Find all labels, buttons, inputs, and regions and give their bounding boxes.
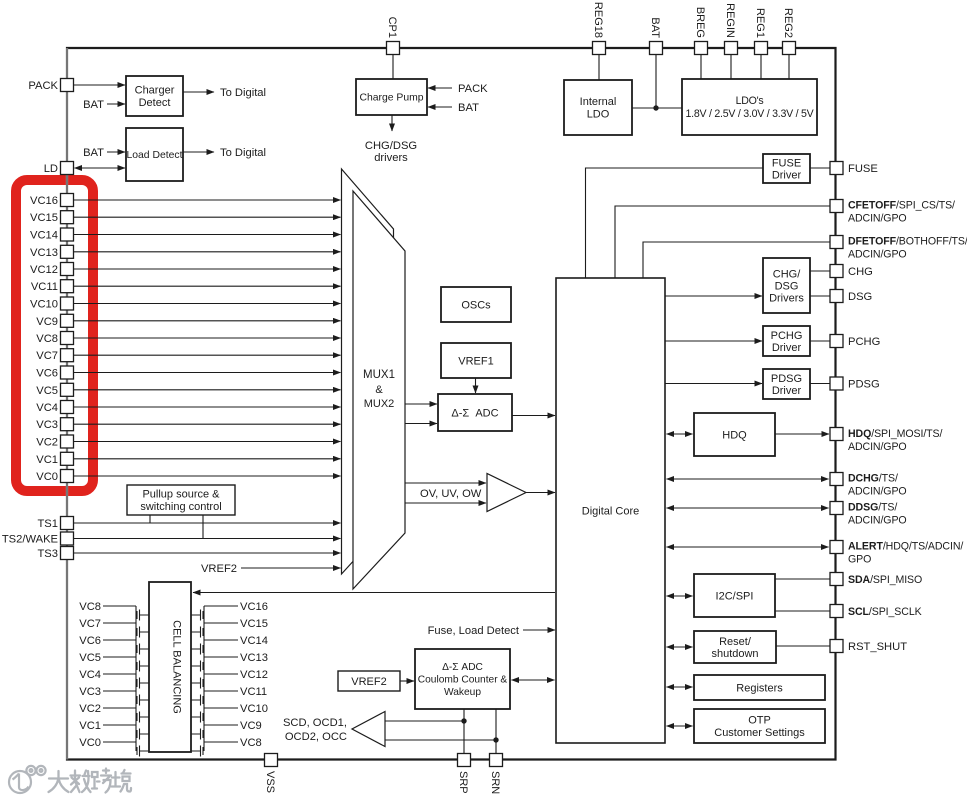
block CHG/DSG Drivers [763, 258, 810, 313]
balancing FET VC3 left [103, 691, 149, 708]
label SDA [848, 574, 922, 586]
label HDQ [848, 428, 943, 453]
wire VC1 to MUX [74, 458, 341, 460]
balancing FET VC2 left [103, 708, 149, 725]
balancing FET VC1 left [103, 725, 149, 742]
block Coulomb Counter ADC [415, 649, 510, 709]
pin BAT (top) [650, 42, 663, 55]
svg-text:MUX2: MUX2 [364, 398, 395, 410]
svg-text:BAT: BAT [83, 147, 104, 159]
svg-text:DDSG/TS/: DDSG/TS/ [848, 502, 897, 514]
wire BAT into Charge Pump [428, 106, 452, 108]
wire TS2/WAKE to MUX [74, 538, 341, 540]
wire CFETOFF to Digital Core [615, 206, 830, 278]
svg-text:VC0: VC0 [79, 737, 101, 749]
wire VC15 to MUX [74, 216, 341, 218]
balancing FET VC0 left [103, 742, 149, 757]
svg-text:VC8: VC8 [79, 601, 101, 613]
pin REG1 [755, 42, 768, 55]
block Internal LDO [564, 80, 632, 135]
svg-text:ADCIN/GPO: ADCIN/GPO [848, 515, 907, 527]
balancing FET VC7 left [103, 623, 149, 640]
wire MUX to comparator in1 [405, 482, 486, 484]
pin PDSG [830, 377, 843, 390]
pin VC12 [61, 263, 74, 276]
block Pullup source and switching control [127, 485, 235, 515]
svg-text:VC9: VC9 [36, 316, 58, 328]
svg-text:VC14: VC14 [240, 635, 268, 647]
svg-text:VC6: VC6 [36, 368, 58, 380]
label MUX1 & MUX2 [363, 369, 395, 410]
svg-text:VC13: VC13 [240, 652, 268, 664]
svg-text:RST_SHUT: RST_SHUT [848, 641, 907, 653]
svg-text:VC2: VC2 [79, 703, 101, 715]
wire MUX to ADC in2 [405, 423, 437, 425]
svg-text:BREG: BREG [694, 7, 706, 38]
wire FUSE Driver to Digital Core [586, 168, 764, 278]
svg-text:VC10: VC10 [30, 299, 58, 311]
balancing FET VC16 right [191, 606, 238, 623]
pin PCHG [830, 335, 843, 348]
svg-text:VC16: VC16 [240, 601, 268, 613]
pin DDSG [830, 502, 843, 515]
svg-text:ADCIN/GPO: ADCIN/GPO [848, 441, 907, 453]
svg-text:PDSG: PDSG [848, 379, 880, 391]
wire VC0 to MUX [74, 475, 341, 477]
wire FUSE Driver to FUSE pin [810, 167, 830, 169]
svg-text:VC0: VC0 [36, 471, 58, 483]
svg-text:OCD2, OCC: OCD2, OCC [285, 731, 347, 743]
svg-text:Pullup source &: Pullup source & [142, 489, 220, 501]
svg-text:OSCs: OSCs [461, 299, 491, 311]
balancing FET VC13 right [191, 657, 238, 674]
svg-text:&: & [375, 384, 383, 396]
svg-text:Customer Settings: Customer Settings [714, 727, 805, 739]
block Delta-Sigma ADC [438, 394, 512, 431]
svg-text:OV, UV, OW: OV, UV, OW [420, 488, 482, 500]
wire Digital Core to I2C/SPI [667, 595, 693, 597]
block Digital Core [556, 278, 665, 743]
svg-text:SRP: SRP [457, 771, 469, 794]
wire ADC to Digital Core [512, 415, 555, 417]
pin VC8 [61, 332, 74, 345]
svg-text:Δ-Σ ADC: Δ-Σ ADC [442, 662, 483, 673]
svg-text:CHG/DSG: CHG/DSG [365, 140, 417, 152]
pin VC9 [61, 314, 74, 327]
svg-text:CFETOFF/SPI_CS/TS/: CFETOFF/SPI_CS/TS/ [848, 200, 955, 212]
svg-text:Load Detect: Load Detect [126, 150, 182, 161]
svg-text:DFETOFF/BOTHOFF/TS/: DFETOFF/BOTHOFF/TS/ [848, 236, 967, 248]
svg-text:TS3: TS3 [37, 548, 58, 560]
svg-text:VC15: VC15 [240, 618, 268, 630]
svg-text:VC12: VC12 [30, 264, 58, 276]
block FUSE Driver [763, 154, 810, 183]
svg-text:PCHG: PCHG [848, 336, 880, 348]
svg-text:REG18: REG18 [592, 2, 604, 38]
svg-text:VC2: VC2 [36, 437, 58, 449]
block OTP Customer Settings [694, 709, 825, 743]
wire Internal LDO to LDOs [632, 107, 682, 109]
pin VC2 [61, 435, 74, 448]
wire VC9 to MUX [74, 320, 341, 322]
pin VC11 [61, 280, 74, 293]
wire Reset/shutdown to RST_SHUT pin [776, 645, 830, 647]
wire SRP to comparator [385, 720, 464, 722]
block Load Detect [126, 128, 183, 181]
wire Digital Core to Reset/shutdown [667, 646, 693, 648]
svg-text:VC8: VC8 [240, 737, 262, 749]
svg-text:1.8V / 2.5V / 3.0V / 3.3V / 5V: 1.8V / 2.5V / 3.0V / 3.3V / 5V [686, 108, 815, 120]
pin SRP [458, 754, 471, 767]
svg-text:VC11: VC11 [240, 686, 267, 698]
pin PACK [61, 79, 74, 92]
wire Load Detect to To Digital [183, 151, 214, 153]
wire Digital Core to DDSG pin [667, 507, 829, 509]
wire MUX to comparator in2 [405, 502, 486, 504]
svg-text:HDQ: HDQ [722, 429, 747, 441]
svg-text:Charge Pump: Charge Pump [359, 93, 423, 104]
wire TS3 to MUX [74, 552, 341, 554]
svg-text:ADCIN/GPO: ADCIN/GPO [848, 249, 907, 261]
junction dot SRP [461, 718, 466, 723]
svg-text:Fuse, Load Detect: Fuse, Load Detect [428, 625, 520, 637]
svg-text:PACK: PACK [28, 80, 58, 92]
balancing FET VC9 right [191, 725, 238, 742]
wire DFETOFF to Digital Core [643, 242, 830, 278]
pin VC5 [61, 383, 74, 396]
pin VC3 [61, 418, 74, 431]
wire PACK to Charger Detect [74, 84, 126, 86]
svg-text:LDO: LDO [587, 109, 610, 121]
block Charger Detect [126, 76, 183, 116]
wire VC11 to MUX [74, 285, 341, 287]
wire VC3 to MUX [74, 423, 341, 425]
pin CHG [830, 265, 843, 278]
svg-text:CP1: CP1 [386, 17, 398, 38]
svg-text:VC12: VC12 [240, 669, 268, 681]
wire comparator to Digital Core [526, 492, 555, 494]
wire Digital Core to CHG/DSG Drivers [665, 295, 762, 297]
block I2C/SPI [694, 574, 775, 617]
pin SRN [490, 754, 503, 767]
pin REGIN [725, 42, 738, 55]
svg-text:VC3: VC3 [36, 419, 58, 431]
wire VC12 to MUX [74, 268, 341, 270]
balancing FET VC11 right [191, 691, 238, 708]
svg-text:VSS: VSS [264, 771, 276, 793]
wire VREF1 to ADC [475, 378, 477, 393]
pin REG18 [593, 42, 606, 55]
watermark logo 100 [9, 766, 46, 793]
svg-text:CELL BALANCING: CELL BALANCING [171, 620, 183, 714]
svg-text:VC15: VC15 [30, 212, 58, 224]
pin LD [61, 162, 74, 175]
svg-text:VC3: VC3 [79, 686, 101, 698]
pin CFETOFF [830, 200, 843, 213]
pin TS2/WAKE [61, 532, 74, 545]
svg-text:SDA/SPI_MISO: SDA/SPI_MISO [848, 574, 922, 586]
wire BAT to Load Detect [107, 151, 125, 153]
svg-text:Digital Core: Digital Core [582, 505, 639, 517]
block PCHG Driver [763, 326, 810, 356]
balancing FET VC4 left [103, 674, 149, 691]
svg-text:VC5: VC5 [36, 385, 58, 397]
pin VC13 [61, 245, 74, 258]
svg-text:CHG/: CHG/ [773, 268, 801, 280]
wire LD to Load Detect [75, 167, 126, 169]
svg-text:Driver: Driver [772, 169, 802, 181]
wire Digital Core to OTP [667, 725, 693, 727]
wire pullup stub to TS2 [202, 515, 204, 539]
wire Fuse Load Detect to Digital Core [523, 629, 555, 631]
svg-text:VC6: VC6 [79, 635, 101, 647]
svg-text:FUSE: FUSE [772, 157, 801, 169]
wire BREG to LDOs [700, 55, 702, 80]
label SCL [848, 606, 922, 618]
pin VC14 [61, 228, 74, 241]
svg-text:VREF2: VREF2 [201, 563, 237, 575]
chip outer border [67, 48, 836, 760]
wire Coulomb Counter to Digital Core [512, 679, 555, 681]
wire I2C/SPI to SCL pin [775, 610, 830, 612]
svg-text:VC9: VC9 [240, 720, 262, 732]
svg-text:Driver: Driver [772, 385, 802, 397]
block Charge Pump [356, 79, 427, 115]
svg-text:To Digital: To Digital [220, 87, 266, 99]
pin DCHG [830, 473, 843, 486]
svg-text:LDO's: LDO's [736, 95, 764, 107]
pin VC4 [61, 401, 74, 414]
svg-text:CHG: CHG [848, 266, 873, 278]
label DDSG [848, 502, 907, 527]
wire BAT to LDO rail [655, 55, 657, 109]
pin VC6 [61, 366, 74, 379]
svg-text:OTP: OTP [748, 715, 771, 727]
svg-text:VC7: VC7 [36, 350, 58, 362]
svg-text:drivers: drivers [374, 152, 408, 164]
wire VC10 to MUX [74, 303, 341, 305]
comparator SCD/OCD/OCC [352, 712, 385, 747]
svg-text:VC1: VC1 [79, 720, 101, 732]
pin SDA [830, 573, 843, 586]
block CELL BALANCING [149, 582, 191, 752]
block LDOs [682, 79, 817, 135]
wire HDQ to HDQ pin [775, 433, 829, 435]
comparator OV/UV/OW [487, 474, 526, 512]
wire Charger Detect to To Digital [183, 91, 214, 93]
svg-text:ALERT/HDQ/TS/ADCIN/: ALERT/HDQ/TS/ADCIN/ [848, 541, 963, 553]
balancing FET VC15 right [191, 623, 238, 640]
svg-text:VREF2: VREF2 [351, 676, 386, 688]
svg-text:SCL/SPI_SCLK: SCL/SPI_SCLK [848, 606, 922, 618]
junction dot SRN [493, 737, 498, 742]
pin REG2 [783, 42, 796, 55]
svg-text:VC16: VC16 [30, 195, 58, 207]
wire REG1 to LDOs [760, 55, 762, 80]
wire Digital Core to Registers [667, 686, 693, 688]
pin VC16 [61, 194, 74, 207]
svg-text:Registers: Registers [736, 682, 783, 694]
pin DFETOFF [830, 236, 843, 249]
svg-text:VC1: VC1 [36, 454, 58, 466]
MUX1 back trapezoid [342, 169, 394, 574]
svg-text:VC8: VC8 [36, 333, 58, 345]
svg-text:Drivers: Drivers [769, 292, 804, 304]
svg-text:shutdown: shutdown [711, 648, 758, 660]
svg-text:VC11: VC11 [31, 281, 58, 293]
svg-text:DCHG/TS/: DCHG/TS/ [848, 473, 898, 485]
wire REGIN to LDOs [730, 55, 732, 80]
svg-text:To Digital: To Digital [220, 147, 266, 159]
wire VC8 to MUX [74, 337, 341, 339]
wire Charge Pump to CHG/DSG drivers [391, 115, 393, 131]
pin HDQ [830, 428, 843, 441]
label DCHG [848, 473, 907, 498]
svg-text:Δ-Σ ADC: Δ-Σ ADC [451, 407, 498, 419]
wire SRN sense line [495, 709, 497, 753]
svg-text:FUSE: FUSE [848, 163, 878, 175]
svg-text:VC4: VC4 [36, 402, 58, 414]
block VREF1 [441, 343, 511, 378]
block Registers [694, 675, 825, 700]
svg-text:VC7: VC7 [79, 618, 101, 630]
balancing FET VC14 right [191, 640, 238, 657]
pin VSS [265, 754, 278, 767]
svg-text:LD: LD [44, 163, 58, 175]
pin TS3 [61, 547, 74, 560]
svg-text:REG1: REG1 [754, 8, 766, 38]
wire PACK into Charge Pump [428, 87, 452, 89]
wire VC2 to MUX [74, 441, 341, 443]
svg-text:Reset/: Reset/ [719, 636, 752, 648]
svg-text:Driver: Driver [772, 342, 802, 354]
pin TS1 [61, 517, 74, 530]
svg-text:I2C/SPI: I2C/SPI [716, 590, 754, 602]
label ALERT [848, 541, 963, 566]
svg-text:TS2/WAKE: TS2/WAKE [2, 534, 58, 546]
svg-text:VC14: VC14 [30, 230, 58, 242]
balancing FET VC5 left [103, 657, 149, 674]
pin VC15 [61, 211, 74, 224]
red highlight box around VC16-VC0 pins [16, 180, 93, 491]
wire TS1 to MUX [74, 522, 341, 524]
junction dot BAT rail [653, 105, 658, 110]
svg-text:MUX1: MUX1 [363, 369, 395, 381]
wire MUX to ADC in1 [405, 403, 437, 405]
wire VC14 to MUX [74, 234, 341, 236]
pin VC10 [61, 297, 74, 310]
svg-text:GPO: GPO [848, 554, 871, 566]
svg-text:BAT: BAT [649, 17, 661, 38]
wire VC6 to MUX [74, 372, 341, 374]
svg-text:Wakeup: Wakeup [444, 687, 481, 698]
svg-text:VC4: VC4 [79, 669, 101, 681]
svg-text:BAT: BAT [458, 102, 479, 114]
block Reset/shutdown [694, 631, 776, 663]
block OSCs [441, 287, 511, 322]
wire VC16 to MUX [74, 199, 341, 201]
label DFETOFF [848, 236, 967, 261]
wire CHG/DSG Drivers to CHG pin [810, 270, 830, 272]
svg-text:VC5: VC5 [79, 652, 101, 664]
svg-text:SCD, OCD1,: SCD, OCD1, [283, 717, 347, 729]
wire Digital Core to PDSG Driver [665, 383, 762, 385]
pin DSG [830, 290, 843, 303]
wire PCHG Driver to PCHG pin [810, 340, 830, 342]
svg-text:ADCIN/GPO: ADCIN/GPO [848, 213, 907, 225]
svg-text:Charger: Charger [135, 85, 175, 97]
svg-text:Internal: Internal [580, 96, 617, 108]
svg-text:Detect: Detect [139, 97, 171, 109]
wire pullup stub to TS1 [149, 515, 151, 523]
wire SRP sense line [463, 709, 465, 753]
label CFETOFF [848, 200, 955, 225]
pin FUSE [830, 162, 843, 175]
svg-text:VC13: VC13 [30, 247, 58, 259]
pin RST_SHUT [830, 640, 843, 653]
wire VC7 to MUX [74, 354, 341, 356]
svg-text:REG2: REG2 [782, 8, 794, 38]
wire SRN to comparator [385, 739, 496, 741]
wire Digital Core to DCHG pin [667, 478, 829, 480]
pin VC1 [61, 452, 74, 465]
wire CP1 to Charge Pump [392, 55, 394, 80]
wire CHG/DSG Drivers to DSG pin [810, 295, 830, 297]
svg-text:SRN: SRN [489, 771, 501, 794]
wire VC4 to MUX [74, 406, 341, 408]
wire VREF2 to Coulomb Counter [400, 680, 414, 682]
svg-text:DSG: DSG [775, 280, 799, 292]
svg-text:Coulomb Counter &: Coulomb Counter & [418, 675, 508, 686]
pin VC7 [61, 349, 74, 362]
svg-text:TS1: TS1 [37, 518, 58, 530]
pin VC0 [61, 470, 74, 483]
wire REG18 to Internal LDO [598, 55, 600, 81]
svg-text:PACK: PACK [458, 83, 488, 95]
wire VC5 to MUX [74, 389, 341, 391]
pin ALERT [830, 541, 843, 554]
balancing FET VC6 left [103, 640, 149, 657]
svg-text:PCHG: PCHG [771, 330, 803, 342]
block VREF2 [338, 671, 400, 691]
wire Digital Core to HDQ [667, 433, 693, 435]
wire PDSG Driver to PDSG pin [810, 383, 830, 385]
watermark text da shu kua jing [49, 769, 132, 793]
wire Digital Core to CELL BALANCING [193, 592, 555, 594]
svg-text:BAT: BAT [83, 99, 104, 111]
svg-text:PDSG: PDSG [771, 373, 802, 385]
svg-text:REGIN: REGIN [724, 3, 736, 38]
pin CP1 [387, 42, 400, 55]
svg-text:VREF1: VREF1 [458, 355, 493, 367]
balancing FET VC10 right [191, 708, 238, 725]
wire Digital Core to PCHG Driver [665, 340, 762, 342]
svg-text:VC10: VC10 [240, 703, 268, 715]
wire BAT to Charger Detect [107, 103, 125, 105]
wire VREF2 to MUX [241, 567, 341, 569]
block PDSG Driver [763, 369, 810, 399]
block HDQ [694, 413, 775, 456]
svg-text:HDQ/SPI_MOSI/TS/: HDQ/SPI_MOSI/TS/ [848, 428, 943, 440]
balancing FET VC8 left [103, 606, 149, 623]
svg-text:ADCIN/GPO: ADCIN/GPO [848, 486, 907, 498]
balancing FET VC12 right [191, 674, 238, 691]
wire Digital Core to ALERT pin [667, 546, 829, 548]
svg-text:switching control: switching control [140, 501, 221, 513]
balancing FET VC8 right [191, 742, 238, 757]
wire VC13 to MUX [74, 251, 341, 253]
wire I2C/SPI to SDA pin [775, 578, 830, 580]
